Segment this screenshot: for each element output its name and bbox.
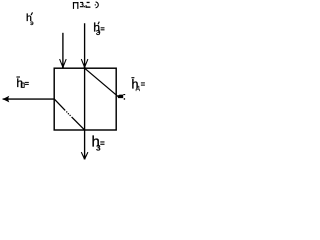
- svg-text:э: э: [30, 20, 34, 27]
- svg-text:д: д: [136, 85, 140, 92]
- svg-text:з: з: [96, 142, 101, 153]
- svg-text:э: э: [96, 27, 101, 37]
